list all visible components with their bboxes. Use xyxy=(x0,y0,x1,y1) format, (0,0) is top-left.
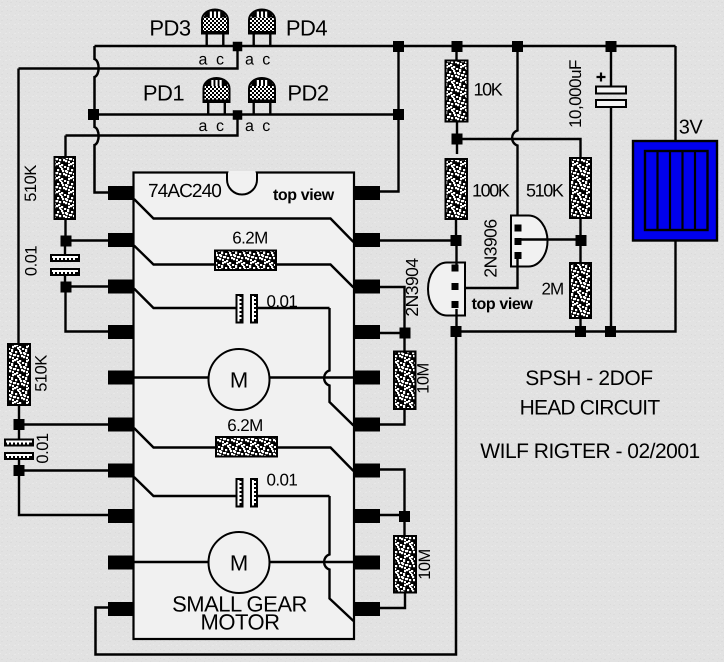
svg-text:WILF RIGTER - 02/2001: WILF RIGTER - 02/2001 xyxy=(480,440,699,463)
svg-text:2M: 2M xyxy=(542,280,564,299)
svg-text:3V: 3V xyxy=(679,117,704,139)
svg-text:a: a xyxy=(245,118,254,135)
svg-text:74AC240: 74AC240 xyxy=(148,181,221,202)
svg-text:10K: 10K xyxy=(474,80,503,100)
svg-text:0.01: 0.01 xyxy=(34,433,52,463)
svg-text:c: c xyxy=(216,52,224,69)
svg-text:SPSH - 2DOF: SPSH - 2DOF xyxy=(525,367,652,390)
svg-text:2N3904: 2N3904 xyxy=(402,258,422,317)
svg-text:top view: top view xyxy=(273,187,335,204)
svg-text:M: M xyxy=(230,551,248,576)
svg-text:2N3906: 2N3906 xyxy=(481,219,501,277)
svg-text:a: a xyxy=(245,52,254,69)
svg-text:0.01: 0.01 xyxy=(23,246,41,276)
svg-text:PD2: PD2 xyxy=(287,81,329,106)
svg-text:0.01: 0.01 xyxy=(267,292,298,311)
svg-text:a: a xyxy=(199,52,208,69)
svg-text:c: c xyxy=(262,52,270,69)
svg-text:10M: 10M xyxy=(415,363,433,394)
svg-text:PD4: PD4 xyxy=(286,16,328,41)
svg-text:6.2M: 6.2M xyxy=(232,229,267,248)
svg-text:PD3: PD3 xyxy=(149,16,191,41)
svg-text:c: c xyxy=(216,118,224,135)
svg-text:HEAD CIRCUIT: HEAD CIRCUIT xyxy=(520,397,661,420)
svg-text:510K: 510K xyxy=(22,165,40,202)
svg-text:c: c xyxy=(262,118,270,135)
svg-text:0.01: 0.01 xyxy=(267,471,298,490)
svg-text:510K: 510K xyxy=(33,355,51,392)
svg-text:510K: 510K xyxy=(526,181,564,201)
svg-text:6.2M: 6.2M xyxy=(227,416,262,435)
svg-text:10M: 10M xyxy=(416,549,434,580)
svg-text:100K: 100K xyxy=(472,181,510,201)
svg-text:top view: top view xyxy=(472,296,534,313)
svg-text:MOTOR: MOTOR xyxy=(201,610,280,635)
svg-text:PD1: PD1 xyxy=(143,81,185,106)
svg-text:10,000uF: 10,000uF xyxy=(566,60,585,128)
svg-text:M: M xyxy=(230,368,248,393)
svg-text:a: a xyxy=(199,118,208,135)
